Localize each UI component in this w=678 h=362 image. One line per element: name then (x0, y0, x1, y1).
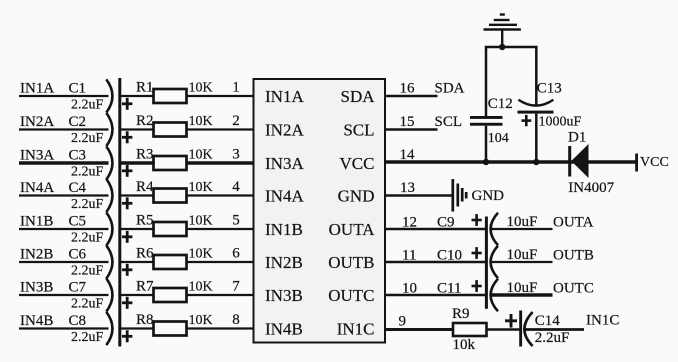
svg-text:VCC: VCC (340, 154, 375, 173)
junction dot below ground (499, 44, 505, 50)
resistor R9 10k (452, 306, 487, 353)
svg-text:SDA: SDA (435, 81, 465, 97)
capacitor C1 2.2uF (curved plate, value, plus) (69, 79, 133, 112)
svg-text:2.2uF: 2.2uF (71, 330, 104, 345)
pin number 2 (232, 113, 240, 129)
svg-text:104: 104 (488, 131, 509, 146)
svg-text:SCL: SCL (343, 120, 374, 139)
pin label IN1A (pin 1) (265, 87, 304, 106)
capacitor C5 2.2uF (curved plate, value, plus) (69, 212, 133, 245)
svg-text:OUTC: OUTC (328, 286, 374, 305)
wire pin 9 to R9 (385, 328, 453, 331)
svg-text:C14: C14 (535, 313, 561, 329)
pin label OUTC (pin 10) (328, 286, 374, 305)
svg-text:5: 5 (232, 213, 240, 229)
svg-text:2: 2 (232, 113, 240, 129)
svg-text:IN1C: IN1C (586, 313, 619, 329)
wire C9 to OUTA (491, 228, 553, 230)
pin number 12 (402, 215, 417, 231)
wire IN1B to C5 (19, 228, 109, 230)
wire pin 16 (385, 95, 438, 98)
capacitor C4 2.2uF (curved plate, value, plus) (69, 179, 133, 212)
capacitor C1-C8 shared straight plate line (118, 78, 121, 347)
svg-text:13: 13 (400, 180, 415, 196)
svg-text:16: 16 (400, 81, 416, 97)
resistor R5 10K (136, 213, 213, 237)
wire R7 to IC pin 7 (187, 294, 254, 296)
pin number 11 (402, 248, 416, 264)
capacitor C14 2.2uF polarized (505, 311, 569, 347)
junction dot C13/VCC (533, 159, 539, 165)
svg-text:OUTC: OUTC (553, 281, 594, 297)
svg-text:10K: 10K (189, 81, 213, 96)
wire C10 to OUTB (491, 261, 553, 263)
pin label SCL (pin 15) (343, 120, 374, 139)
ground GND symbol pin 13 (453, 179, 504, 212)
svg-text:IN4B: IN4B (20, 313, 53, 329)
svg-text:OUTA: OUTA (329, 220, 376, 239)
svg-text:15: 15 (400, 114, 415, 130)
node IN1C output (586, 313, 619, 329)
svg-text:IN3A: IN3A (265, 154, 304, 173)
wire IN4B to C8 (19, 327, 109, 329)
svg-text:IN1B: IN1B (265, 220, 303, 239)
capacitor C13 1000uF polarized (518, 81, 582, 130)
svg-text:R5: R5 (136, 213, 154, 229)
pin label IN3B (pin 7) (265, 286, 303, 305)
wire pin 13 (385, 194, 453, 197)
node OUTA (553, 215, 594, 231)
resistor R3 10K (136, 147, 213, 171)
wire C2 plate to R2 (121, 128, 154, 130)
pin number 6 (232, 246, 240, 262)
svg-text:2.2uF: 2.2uF (71, 297, 104, 312)
svg-text:8: 8 (232, 312, 240, 328)
svg-text:3: 3 (232, 147, 240, 163)
pin label IN2A (pin 2) (265, 120, 304, 139)
svg-text:IN2B: IN2B (20, 247, 53, 263)
svg-text:IN3B: IN3B (265, 286, 303, 305)
resistor R4 10K (136, 179, 213, 203)
pin label IN2B (pin 6) (265, 253, 303, 272)
svg-text:OUTB: OUTB (553, 248, 594, 264)
wire branch down to C12 (485, 46, 488, 117)
svg-text:IN4A: IN4A (20, 180, 54, 196)
wire pin 15 (385, 128, 438, 131)
svg-text:IN4A: IN4A (265, 186, 304, 205)
wire top horizontal between C12 and C13 branches (485, 46, 537, 49)
wire C5 plate to R5 (121, 228, 154, 230)
pin number 3 (232, 147, 240, 163)
wire R4 to IC pin 4 (187, 194, 254, 196)
svg-text:GND: GND (338, 186, 375, 205)
capacitor C3 2.2uF (curved plate, value, plus) (69, 146, 133, 179)
wire C6 plate to R6 (121, 261, 154, 263)
node IN1B input net label (20, 214, 53, 230)
node SDA (435, 81, 465, 97)
svg-text:C12: C12 (488, 96, 513, 112)
wire VCC rail pin 14 (385, 160, 637, 163)
pin label OUTA (pin 12) (329, 220, 376, 239)
svg-text:IN4007: IN4007 (568, 180, 614, 196)
wire R5 to IC pin 5 (187, 228, 254, 230)
node IN2A input net label (20, 114, 54, 130)
wire C12 to VCC rail (485, 126, 488, 164)
wire IN4A to C4 (19, 194, 109, 196)
svg-text:C5: C5 (69, 214, 87, 230)
pin label GND (pin 13) (338, 186, 375, 205)
pin number 5 (232, 213, 240, 229)
svg-text:10K: 10K (189, 214, 213, 229)
pin number 7 (232, 279, 240, 295)
junction dot C12/VCC (483, 159, 489, 165)
svg-text:10: 10 (402, 281, 417, 297)
svg-text:7: 7 (232, 279, 240, 295)
svg-text:C7: C7 (69, 280, 87, 296)
node IN4B input net label (20, 313, 53, 329)
pin label IN1B (pin 5) (265, 220, 303, 239)
svg-text:OUTA: OUTA (553, 215, 594, 231)
svg-text:C11: C11 (437, 281, 461, 297)
svg-text:C3: C3 (69, 148, 87, 164)
svg-text:6: 6 (232, 246, 240, 262)
svg-text:C8: C8 (69, 313, 87, 329)
svg-text:VCC: VCC (640, 155, 669, 170)
svg-text:IN4B: IN4B (265, 319, 303, 338)
capacitor C10 10uF polarized (437, 246, 537, 279)
capacitor C12 104 (470, 96, 513, 146)
node OUTC (553, 281, 594, 297)
svg-text:IN2A: IN2A (265, 120, 304, 139)
wire C1 plate to R1 (121, 95, 154, 97)
capacitor C11 10uF polarized (437, 279, 537, 312)
pin number 1 (232, 80, 240, 96)
svg-text:10k: 10k (453, 337, 476, 353)
svg-text:C9: C9 (437, 215, 455, 231)
node IN4A input net label (20, 180, 54, 196)
capacitor C7 2.2uF (curved plate, value, plus) (69, 278, 133, 311)
svg-text:R9: R9 (452, 306, 470, 322)
wire IN2B to C6 (19, 261, 109, 263)
svg-text:IN1A: IN1A (20, 81, 54, 97)
svg-text:14: 14 (400, 147, 416, 163)
svg-text:D1: D1 (568, 130, 586, 146)
wire R1 to IC pin 1 (187, 95, 254, 97)
svg-text:11: 11 (402, 248, 416, 264)
wire IN3A to C3 (19, 161, 109, 165)
svg-text:10K: 10K (189, 247, 213, 262)
svg-text:C4: C4 (69, 180, 87, 196)
node IN2B input net label (20, 247, 53, 263)
pin number 9 (399, 314, 407, 330)
svg-text:IN2A: IN2A (20, 114, 54, 130)
svg-text:R4: R4 (136, 179, 154, 195)
wire C11 to OUTC (491, 293, 553, 297)
svg-text:R8: R8 (136, 312, 154, 328)
svg-text:IN3B: IN3B (20, 280, 53, 296)
resistor R8 10K (136, 312, 213, 336)
svg-text:R2: R2 (136, 113, 154, 129)
wire R9 to C14 (487, 328, 521, 330)
svg-text:12: 12 (402, 215, 417, 231)
svg-text:OUTB: OUTB (328, 253, 374, 272)
svg-text:C6: C6 (69, 247, 87, 263)
pin label IN4A (pin 4) (265, 186, 304, 205)
pin label IN1C (pin 9) (337, 319, 375, 338)
pin label IN4B (pin 8) (265, 319, 303, 338)
svg-text:C13: C13 (537, 81, 562, 97)
pin number 8 (232, 312, 240, 328)
wire R6 to IC pin 6 (187, 261, 254, 263)
wire IN1A to C1 (19, 95, 109, 97)
svg-text:IN1C: IN1C (337, 319, 375, 338)
wire C7 plate to R7 (121, 294, 154, 296)
wire R8 to IC pin 8 (187, 327, 254, 329)
svg-text:C2: C2 (69, 114, 87, 130)
pin label OUTB (pin 11) (328, 253, 374, 272)
pin label SDA (pin 16) (340, 87, 375, 106)
terminal VCC (635, 154, 669, 172)
pin number 10 (402, 281, 417, 297)
svg-text:IN3A: IN3A (20, 148, 54, 164)
svg-text:SCL: SCL (435, 114, 463, 130)
svg-text:2.2uF: 2.2uF (71, 264, 104, 279)
wire R2 to IC pin 2 (187, 128, 254, 130)
wire pin 11 to C10 (385, 261, 486, 264)
svg-text:10K: 10K (189, 180, 213, 195)
svg-text:2.2uF: 2.2uF (71, 98, 104, 113)
svg-text:R1: R1 (136, 80, 154, 96)
capacitor C6 2.2uF (curved plate, value, plus) (69, 245, 133, 278)
svg-text:R6: R6 (136, 246, 154, 262)
capacitor C8 2.2uF (curved plate, value, plus) (69, 312, 133, 345)
pin number 4 (232, 179, 240, 195)
svg-text:C10: C10 (437, 248, 462, 264)
wire IN2A to C2 (19, 128, 109, 130)
svg-text:IN2B: IN2B (265, 253, 303, 272)
svg-text:9: 9 (399, 314, 407, 330)
resistor R1 10K (136, 80, 213, 104)
pin number 13 (400, 180, 415, 196)
svg-text:2.2uF: 2.2uF (535, 330, 570, 346)
wire C8 plate to R8 (121, 327, 154, 329)
resistor R6 10K (136, 246, 213, 270)
svg-text:C1: C1 (69, 81, 87, 97)
svg-text:10uF: 10uF (507, 247, 538, 263)
capacitor C9 10uF polarized (437, 213, 537, 246)
node IN1A input net label (20, 81, 54, 97)
IC body (16-pin chip) (254, 79, 386, 343)
wire C14 to IN1C (525, 328, 584, 331)
pin number 16 (400, 81, 416, 97)
node SCL (435, 114, 463, 130)
svg-text:R7: R7 (136, 279, 154, 295)
pin number 14 (400, 147, 416, 163)
wire pin 12 to C9 (385, 228, 486, 231)
svg-text:10uF: 10uF (507, 214, 538, 230)
capacitor C2 2.2uF (curved plate, value, plus) (69, 113, 133, 146)
svg-text:IN1B: IN1B (20, 214, 53, 230)
svg-text:GND: GND (472, 188, 505, 204)
wire R3 to IC pin 3 (187, 161, 254, 165)
wire branch down to C13 (535, 46, 538, 105)
diode D1 IN4007 (568, 130, 615, 197)
svg-text:1: 1 (232, 80, 240, 96)
node OUTB (553, 248, 594, 264)
pin number 15 (400, 114, 415, 130)
pin label IN3A (pin 3) (265, 154, 304, 173)
svg-text:IN1A: IN1A (265, 87, 304, 106)
svg-text:10K: 10K (189, 280, 213, 295)
svg-text:1000uF: 1000uF (539, 115, 582, 130)
wire pin 10 to C11 (385, 294, 486, 297)
svg-text:4: 4 (232, 179, 240, 195)
svg-text:10K: 10K (189, 148, 213, 163)
wire C13 to VCC rail (535, 114, 538, 164)
wire IN3B to C7 (19, 294, 109, 296)
svg-text:R3: R3 (136, 147, 154, 163)
node IN3B input net label (20, 280, 53, 296)
resistor R7 10K (136, 279, 213, 303)
svg-text:10K: 10K (189, 313, 213, 328)
svg-text:10K: 10K (189, 114, 213, 129)
svg-text:2.2uF: 2.2uF (71, 231, 104, 246)
ground (earth) symbol top (484, 15, 521, 48)
svg-text:2.2uF: 2.2uF (71, 197, 104, 212)
node IN3A input net label (20, 148, 54, 164)
wire C3 plate to R3 (121, 161, 154, 165)
capacitor C9-C11 shared straight plate line (485, 217, 488, 309)
svg-text:2.2uF: 2.2uF (71, 131, 104, 146)
svg-text:2.2uF: 2.2uF (71, 165, 104, 180)
svg-text:SDA: SDA (340, 87, 375, 106)
resistor R2 10K (136, 113, 213, 137)
wire C4 plate to R4 (121, 194, 154, 196)
pin label VCC (pin 14) (340, 154, 375, 173)
